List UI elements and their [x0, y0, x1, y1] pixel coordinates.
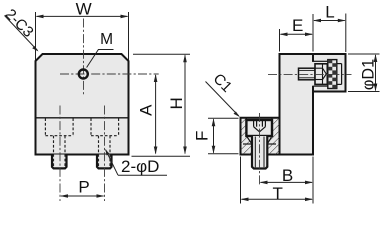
dimension P	[60, 194, 105, 198]
dimension phiD1	[348, 54, 380, 92]
body block (front view, chamfered top corners)	[36, 54, 129, 155]
bottom screw hex socket	[254, 121, 266, 132]
svg-text:F: F	[193, 131, 212, 141]
centerline M hole vertical	[83, 19, 85, 97]
bottom screw centerline	[259, 113, 261, 186]
dimension A	[154, 74, 158, 155]
dimension L	[313, 14, 346, 53]
svg-text:A: A	[137, 104, 156, 116]
bottom screw thread lines	[255, 137, 264, 168]
label 2-phiD with leader	[106, 150, 168, 177]
label 2-C3 with leader (chamfer callout)	[2, 6, 39, 52]
bottom flange with hatch (section)	[241, 118, 280, 155]
head block (side view)	[313, 54, 346, 92]
horizontal screw centerline	[268, 73, 352, 75]
svg-text:T: T	[273, 184, 283, 203]
knurled thumb wheel (checker pattern)	[328, 60, 337, 89]
bottom screw head (socket head, section)	[246, 120, 272, 136]
horizontal screw bore in head block	[312, 62, 328, 86]
svg-text:2-φD: 2-φD	[121, 157, 159, 176]
flange step line (front view)	[37, 117, 128, 119]
dimension B	[260, 157, 314, 204]
dimension T	[241, 157, 314, 204]
svg-text:B: B	[282, 166, 293, 185]
svg-text:W: W	[76, 0, 92, 19]
bottom screw shank	[252, 136, 267, 169]
dimension H	[132, 54, 191, 156]
svg-text:E: E	[292, 16, 303, 35]
svg-text:φD1: φD1	[360, 59, 378, 90]
hidden hole right small (dashed)	[99, 136, 111, 167]
horizontal screw head with socket	[315, 64, 327, 85]
centerline left pin	[59, 106, 61, 202]
svg-text:C1: C1	[210, 70, 236, 96]
hidden counterbore right (dashed)	[91, 118, 119, 135]
svg-text:L: L	[325, 3, 334, 22]
hidden hole left small (dashed)	[54, 136, 66, 167]
svg-text:H: H	[167, 97, 186, 109]
svg-text:2-C3: 2-C3	[2, 6, 37, 41]
M tapped hole circle	[79, 70, 88, 79]
hidden counterbore left (dashed)	[45, 118, 73, 135]
knob hub (right of knurl)	[337, 64, 342, 85]
svg-text:M: M	[100, 31, 113, 48]
horizontal screw shank with threads	[299, 68, 316, 80]
dimension F	[208, 118, 239, 154]
dimension W	[36, 12, 129, 60]
right screw pin (front view)	[97, 155, 112, 169]
label C1 with leader	[206, 70, 240, 117]
svg-text:P: P	[78, 178, 89, 197]
counterbore outline in flange	[243, 118, 276, 144]
plate (side view)	[280, 54, 314, 155]
centerline right pin	[104, 106, 106, 202]
centerline M hole horizontal	[60, 73, 159, 75]
dimension E	[280, 14, 314, 52]
left screw pin (front view)	[52, 155, 67, 169]
